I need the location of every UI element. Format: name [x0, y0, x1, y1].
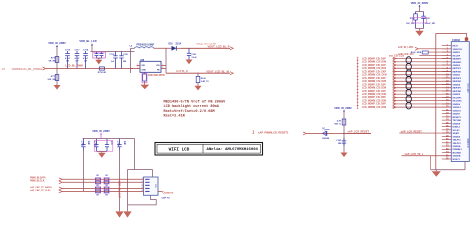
svg-text:MB31490-6/TN Vref of FB 200mV: MB31490-6/TN Vref of FB 200mV: [164, 100, 227, 105]
RC pair bottom bar: [416, 28, 424, 30]
svg-text:MDP3N1: MDP3N1: [453, 91, 462, 93]
svg-text:LCD_MDNP_CSI_D5P: LCD_MDNP_CSI_D5P: [362, 97, 386, 99]
svg-text:4: 4: [142, 186, 143, 189]
svg-text:xAP_CAP_TP_CLK1: xAP_CAP_TP_CLK1: [30, 189, 51, 192]
diff pair 4 wires: [393, 77, 452, 79]
wire node right of U28 vertical: [165, 48, 167, 73]
svg-text:A/UP BL_M: A/UP BL_M: [176, 70, 188, 73]
svg-text:10K_NM: 10K_NM: [47, 79, 56, 81]
svg-text:LCD_MDNP_CSI_D1P: LCD_MDNP_CSI_D1P: [362, 65, 386, 67]
connector CN7 pin numbers: [142, 178, 143, 192]
capacitor C141 on VOUT: [188, 48, 190, 53]
svg-text:xAP_CAP_TP_DATA1: xAP_CAP_TP_DATA1: [30, 186, 53, 189]
ground bottom left 2: [123, 211, 131, 217]
svg-text:VBLP21: VBLP21: [453, 143, 462, 145]
ground below R103: [140, 85, 149, 90]
resistor inline A TP 1: [96, 178, 100, 181]
svg-text:TECON1: TECON1: [453, 120, 462, 122]
common mode choke L15: [406, 89, 411, 96]
svg-text:VDD_IO_2R8V: VDD_IO_2R8V: [334, 106, 352, 110]
wire VDD_BL drop: [91, 45, 93, 52]
wire TP 1 horizontal: [62, 178, 144, 180]
svg-text:SW: SW: [142, 65, 145, 67]
diff pair 6 wires: [393, 90, 452, 92]
svg-text:D18: D18: [169, 44, 174, 46]
svg-text:R717: R717: [51, 76, 57, 78]
svg-text:MCLKP1: MCLKP1: [453, 97, 463, 99]
capacitor C143: [343, 138, 345, 141]
svg-text:SCLK1: SCLK1: [453, 130, 461, 132]
wire TP 4 horizontal: [62, 190, 144, 192]
svg-text:C718: C718: [83, 49, 89, 51]
svg-text:0R_NM: 0R_NM: [49, 60, 57, 62]
wire VDD_IO vertical: [56, 47, 58, 87]
capacitor C734: [119, 139, 121, 145]
svg-text:LCD_MDNP_CSI_CKP: LCD_MDNP_CSI_CKP: [362, 71, 386, 73]
entry arrow TP wire 2: [59, 181, 62, 184]
ground below C143: [341, 153, 348, 158]
diff pair 6 port marks: [357, 90, 359, 93]
diff pair 5 arrows: [393, 83, 396, 86]
title table outer border: [155, 143, 263, 156]
svg-text:LCD_MDNM_CSI_D3N: LCD_MDNM_CSI_D3N: [362, 88, 386, 90]
svg-text:10K_2R1: 10K_2R1: [406, 23, 415, 25]
resistor R142 Rset: [197, 73, 199, 77]
svg-text:1uF: 1uF: [123, 141, 125, 146]
svg-text:LCD_MDNP_CSI_D0P: LCD_MDNP_CSI_D0P: [362, 58, 386, 60]
resistor R717: [55, 75, 59, 81]
svg-text:VOUT_LCD_BL_M: VOUT_LCD_BL_M: [206, 69, 228, 73]
svg-text:xAP_PWM/LCD_RESET1: xAP_PWM/LCD_RESET1: [258, 131, 289, 135]
diff pair 1 wires: [393, 58, 452, 60]
diff pair 1 port marks: [357, 57, 359, 60]
pin 5 stub U28 right upper: [161, 65, 166, 67]
RC pair top bar: [416, 11, 424, 13]
wire reset horizontal: [307, 132, 372, 134]
diff pair 7 wires: [393, 96, 452, 98]
svg-text:VDD_IO_2R8V: VDD_IO_2R8V: [92, 129, 110, 133]
wire LCD_TE ground branch: [430, 156, 432, 170]
wire TP 2 horizontal: [62, 181, 144, 183]
capacitor C731: [83, 139, 85, 145]
filter caps C721 C722 in magenta box: [96, 52, 98, 54]
entry arrow TP wire 3: [59, 187, 62, 190]
capacitor C732: [96, 139, 98, 145]
resistor inline B TP 4: [104, 190, 108, 193]
svg-text:R103 680-68TM: R103 680-68TM: [148, 75, 165, 77]
svg-text:2.2uF: 2.2uF: [192, 57, 198, 59]
svg-text:VDD_IO_2R8V: VDD_IO_2R8V: [48, 41, 66, 45]
capacitor C765: [423, 12, 425, 17]
svg-text:C716: C716: [65, 49, 71, 51]
svg-text:4: 4: [162, 67, 163, 69]
capacitor C733: [106, 139, 108, 145]
wire row1 into connector: [418, 48, 451, 50]
svg-text:VBLP11: VBLP11: [453, 140, 462, 142]
svg-text:GNDD9: GNDD9: [453, 136, 461, 138]
svg-text:GNDD2: GNDD2: [453, 65, 461, 67]
svg-text:LCD_MDNM_CSI_D6N: LCD_MDNM_CSI_D6N: [362, 107, 386, 109]
diff pair 1 arrows: [393, 57, 396, 60]
diff pair 6 arrows: [393, 89, 396, 92]
wire VOUT_LCD_BL_P: [181, 47, 230, 49]
svg-text:2: 2: [142, 181, 143, 183]
wire vertical with net name: [119, 151, 121, 212]
capacitor C719: [115, 52, 117, 56]
svg-text:PWMBL1: PWMBL1: [453, 149, 463, 151]
ground below R717: [54, 85, 61, 90]
magenta highlight box RC pair: [413, 17, 427, 23]
diff pair 7 arrows: [393, 96, 396, 99]
ground below R142: [195, 86, 202, 91]
connector CN7 body: [144, 177, 159, 195]
svg-text:WIFI LCD: WIFI LCD: [169, 147, 190, 152]
svg-text:MDP2P1: MDP2P1: [453, 78, 462, 80]
svg-text:5: 5: [142, 190, 143, 192]
wire row3 into connector: [419, 54, 451, 56]
magenta highlight box bottom caps: [94, 141, 113, 152]
svg-text:100nF_2R1: 100nF_2R1: [425, 23, 436, 25]
svg-text:LCD_MDNM_CSI_D2N: LCD_MDNM_CSI_D2N: [362, 81, 386, 83]
wire wrap to connector top pin: [436, 33, 467, 41]
svg-text:GNDD1: GNDD1: [453, 52, 461, 54]
svg-text:GNDDA: GNDDA: [453, 145, 461, 148]
wire connector bottom stub: [464, 162, 466, 170]
common mode choke L13: [406, 76, 411, 83]
wire entry arrow reset: [303, 132, 306, 135]
wire TP 3 horizontal: [62, 187, 144, 189]
wire VDD_IO to RC pair: [419, 6, 421, 11]
diff pair 3 port marks: [357, 70, 359, 73]
svg-text:LCD_MDNM_CSI_D4N: LCD_MDNM_CSI_D4N: [362, 93, 386, 96]
resistor inline A TP 2: [96, 181, 100, 184]
title table divider: [202, 144, 204, 153]
wire pullup vertical: [343, 111, 345, 153]
svg-text:Cxxxxx+x: Cxxxxx+x: [163, 193, 174, 195]
svg-text:GNDD8: GNDD8: [453, 123, 461, 125]
svg-text:Rset=Vref/Iset=0.2/0.08M: Rset=Vref/Iset=0.2/0.08M: [164, 109, 215, 114]
svg-text:LCD_MDNM_CSI_D0N: LCD_MDNM_CSI_D0N: [362, 62, 386, 64]
svg-text:xAP_IO_LCD1: xAP_IO_LCD1: [398, 46, 414, 49]
transistor Q7 inline: [323, 131, 327, 135]
svg-text:MCLKN1: MCLKN1: [453, 101, 463, 103]
ground bottom left 1: [115, 211, 123, 217]
svg-text:C731: C731: [80, 141, 82, 147]
common mode choke L17: [406, 102, 411, 109]
svg-text:xAP_LCD_TE_x: xAP_LCD_TE_x: [405, 153, 424, 156]
svg-text:1uF: 1uF: [87, 141, 89, 146]
title table inner border: [157, 144, 261, 153]
svg-text:VIN: VIN: [156, 65, 160, 67]
svg-text:2.4R_TX: 2.4R_TX: [201, 80, 210, 83]
svg-text:1: 1: [142, 178, 143, 180]
pin 2 stub U28 left upper: [137, 65, 141, 67]
diff pair 5 wires: [393, 83, 452, 85]
pin 3 stub U28 left lower: [131, 68, 141, 70]
svg-text:3: 3: [142, 184, 143, 186]
svg-text:C717: C717: [75, 49, 81, 51]
wire rail right end down: [134, 139, 136, 170]
svg-text:GND: GND: [142, 69, 147, 71]
common mode choke L11: [406, 63, 411, 70]
svg-text:MDN0P1: MDN0P1: [453, 59, 462, 61]
ferrite bead FB7 inline: [422, 51, 428, 54]
entry arrow TP wire 1: [59, 178, 62, 181]
diff pair 8 wires: [393, 103, 452, 105]
svg-text:NM: NM: [338, 143, 342, 145]
svg-text:NM: NM: [123, 61, 126, 63]
svg-text:VDDDL1: VDDDL1: [453, 107, 462, 109]
connector CN7 middle stub: [142, 184, 144, 186]
svg-text:LCD_MDNP_CSI_D2P: LCD_MDNP_CSI_D2P: [362, 78, 386, 80]
common mode choke L12: [406, 70, 411, 77]
svg-text:LCD_MDNP_CSI_D4P: LCD_MDNP_CSI_D4P: [362, 90, 386, 93]
wire node left of U28 vertical: [130, 48, 132, 73]
connector J1 body: [451, 42, 469, 162]
wire LCD_BL_PWM horizontal: [46, 68, 133, 70]
svg-text:VDDIO33: VDDIO33: [453, 49, 463, 51]
resistor inline B TP 1: [104, 178, 108, 181]
wire caps to ground: [97, 57, 102, 59]
svg-text:R716: R716: [51, 58, 57, 60]
diff pair 3 arrows: [393, 70, 396, 73]
diff pair 8 port marks: [357, 103, 359, 106]
svg-text:Voltage 10V 1x4.3M: Voltage 10V 1x4.3M: [196, 42, 216, 45]
svg-text:GNDD6: GNDD6: [453, 104, 461, 106]
ground below connector: [435, 170, 437, 171]
wire inductor to diode: [154, 47, 172, 49]
svg-text:3: 3: [137, 67, 138, 69]
port LCD reset: [253, 131, 255, 134]
svg-text:LCD_MDNM_CSI_D5N: LCD_MDNM_CSI_D5N: [362, 100, 386, 102]
svg-text:LCD_BL_CAP: LCD_BL_CAP: [118, 181, 122, 198]
diff pair 8 arrows: [393, 102, 396, 105]
svg-text:LCD_MDNP_CSI_D3P: LCD_MDNP_CSI_D3P: [362, 84, 386, 86]
resistor inline B TP 3: [104, 187, 108, 190]
resistor inline B TP 2: [104, 181, 108, 184]
svg-text:C734: C734: [116, 141, 119, 147]
svg-text:BLENA1: BLENA1: [453, 151, 462, 154]
svg-text:GNDD4: GNDD4: [453, 83, 461, 86]
svg-text:C143: C143: [336, 139, 342, 142]
wire VOUT_LCD_BL_M: [166, 72, 230, 74]
wire CN bottom loop: [128, 195, 157, 205]
wire connector bottom to ground: [431, 169, 465, 171]
svg-text:MDN0N1: MDN0N1: [453, 62, 463, 64]
svg-text:PWM_BLCLK: PWM_BLCLK: [30, 181, 45, 183]
svg-text:PRS4018-100MT: PRS4018-100MT: [137, 44, 156, 47]
resistor inline A TP 3: [96, 187, 100, 190]
resistor R103 below U28: [144, 72, 146, 74]
ground below RC pair: [415, 31, 423, 36]
svg-text:MCLKP: MCLKP: [453, 55, 461, 57]
svg-text:GNDDB: GNDDB: [453, 156, 461, 158]
wire LCD_TE into connector: [401, 155, 451, 157]
svg-text:SS14: SS14: [176, 43, 182, 46]
resistor R716: [55, 57, 59, 63]
ground under bottom caps: [98, 153, 106, 158]
diff pair 4 port marks: [357, 77, 359, 80]
svg-text:LCD_MDNM_CSI_D1N: LCD_MDNM_CSI_D1N: [362, 68, 386, 70]
connector J1 net names: [453, 46, 463, 161]
resistor inline A TP 4: [96, 190, 100, 193]
net label xAP_LCD_RESET stub: [346, 132, 372, 134]
svg-text:VDD181: VDD181: [453, 110, 462, 112]
svg-text:CAP TO: CAP TO: [162, 196, 170, 199]
node reset junction: [343, 133, 345, 135]
ground below C141: [186, 60, 193, 65]
ground under filter caps: [95, 60, 102, 65]
wire VDD_IO drop bottom block: [100, 134, 102, 139]
resistor R765: [415, 12, 417, 14]
wire vertical to ground 2: [127, 170, 129, 212]
svg-text:ANelia: AML670MXH16004: ANelia: AML670MXH16004: [207, 147, 259, 152]
wire entry arrow: [43, 67, 46, 70]
svg-text:MDP3P1: MDP3P1: [453, 88, 462, 90]
svg-text:GNDD3: GNDD3: [453, 75, 461, 77]
svg-text:xAP_LCD_RESET: xAP_LCD_RESET: [348, 130, 370, 134]
svg-text:4.7K: 4.7K: [337, 120, 342, 123]
svg-text:MDP2N1: MDP2N1: [453, 81, 462, 83]
diff pair 2 arrows: [393, 64, 396, 67]
diff pair 3 wires: [393, 71, 452, 73]
svg-text:IDSEL1: IDSEL1: [453, 127, 461, 129]
wire LCD_RESET into connector: [399, 132, 451, 134]
svg-text:LCD backlight current 80mA: LCD backlight current 80mA: [164, 104, 220, 109]
svg-text:GNDD7: GNDD7: [453, 114, 461, 116]
rail bottom block: [83, 138, 135, 140]
capacitor C720: [121, 52, 123, 56]
wire left vertical to TP wires: [83, 151, 85, 192]
diff pair 4 arrows: [393, 77, 396, 80]
svg-text:BM23FR: BM23FR: [466, 138, 468, 147]
connector J1 pin numbers: [446, 45, 449, 160]
svg-text:RESET1: RESET1: [453, 117, 462, 119]
resistor R144 pullup: [342, 119, 346, 125]
wire CN top stub: [152, 170, 154, 178]
common mode choke L10: [406, 57, 411, 64]
wire diode to VOUT: [176, 47, 181, 49]
resistor R718 inline: [99, 67, 104, 70]
rail VDD_BL horizontal: [91, 51, 135, 53]
svg-text:R718 0R: R718 0R: [98, 72, 107, 74]
entry arrow TP wire 4: [59, 190, 62, 193]
pin 4 stub U28 right lower: [161, 68, 166, 70]
svg-text:NM_1x: NM_1x: [334, 123, 342, 125]
diff pair 2 wires: [393, 64, 452, 66]
pin pad top right of connector: [465, 37, 468, 40]
svg-text:Rset=2.41R: Rset=2.41R: [164, 114, 186, 118]
svg-text:GNDD5: GNDD5: [453, 94, 461, 96]
wire bottom caps to ground: [97, 151, 108, 153]
connector CN7 contacts: [145, 179, 149, 191]
connector CN7 right pin wire: [158, 190, 163, 192]
diff pair 7 port marks: [357, 96, 359, 99]
svg-text:1N4148: 1N4148: [322, 137, 330, 140]
svg-text:FPC-40P: FPC-40P: [466, 83, 468, 93]
svg-text:MDP1P1: MDP1P1: [453, 68, 462, 70]
svg-text:LCD_MDNP_CSI_D6P: LCD_MDNP_CSI_D6P: [362, 104, 386, 106]
svg-text:2: 2: [137, 64, 138, 66]
wire row2 with bead: [428, 51, 451, 53]
svg-text:SDAT1: SDAT1: [453, 132, 461, 135]
diff pair 2 port marks: [357, 64, 359, 67]
svg-text:xAP_LCD_RESET: xAP_LCD_RESET: [401, 130, 423, 133]
svg-text:LCD_MDNM_CSI_CKN: LCD_MDNM_CSI_CKN: [362, 75, 387, 77]
svg-text:xxx_CSI_LCD: xxx_CSI_LCD: [389, 56, 404, 58]
svg-text:xPWM/LCD_BL_PWM1: xPWM/LCD_BL_PWM1: [12, 67, 43, 71]
svg-text:PWM_BLDATA: PWM_BLDATA: [30, 177, 46, 180]
diff pair 5 port marks: [357, 83, 359, 86]
svg-text:MCI1: MCI1: [453, 46, 459, 48]
svg-text:LCD_BL_PWM: LCD_BL_PWM: [65, 64, 82, 67]
svg-text:NCNC1: NCNC1: [453, 159, 461, 161]
connector J1 pin stubs: [442, 46, 452, 159]
svg-text:VDD_BL_LCD: VDD_BL_LCD: [79, 39, 96, 43]
wire top of CN horizontal: [128, 169, 153, 171]
common mode choke L16: [406, 96, 411, 103]
svg-text:MDP1N1: MDP1N1: [453, 71, 462, 73]
svg-text:VDD_IO_2R8V: VDD_IO_2R8V: [411, 1, 429, 5]
ground bus vertical at connector: [435, 33, 437, 169]
common mode choke L14: [406, 83, 411, 90]
svg-text:5: 5: [162, 64, 163, 66]
